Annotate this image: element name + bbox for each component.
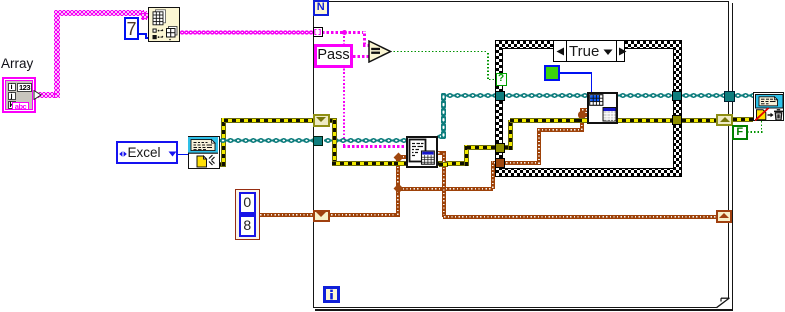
wire: New Report error out up to shift register (olive) [218,162,226,167]
wire: 7 to index array (blue) [139,33,146,35]
node junction A (magenta dot) [342,30,347,35]
wire: Pass out to equals lower input (magenta) [353,55,369,58]
wire: junction to equals top input [344,31,365,34]
wire: cluster constant to brown shift register [259,213,313,217]
VI Excel Get Worksheet [406,136,438,168]
wire: bottom rail to right brown shift register [443,215,716,219]
boolean constant F [732,125,748,140]
VI New Report [188,136,220,169]
case selector label True [553,40,625,62]
cluster constant 0,8 [235,189,260,241]
tunnel left (report refnum, teal) [313,136,323,146]
wire: brown riser at x397 [396,156,400,216]
wire: shift register to riser (brown) [330,213,400,217]
wire crossing patches (upper wire redraw) [219,138,230,143]
function equals? [368,40,392,63]
wire: junction down to worksheet name (magenta dotted vertical) [343,34,345,146]
VI Excel Set Cell Color [587,92,619,124]
case structure interior [502,48,674,170]
tunnel right (report refnum, teal) [724,91,735,102]
node junction B (brown diamond) [393,152,403,162]
wire: array control to index array (magenta rope) [38,92,58,99]
case structure border [495,40,683,177]
wire: case tunnel to Set Cell (brown) [505,161,540,165]
wire: tunnel to junction (magenta) [322,31,344,34]
wire: error through case (olive) [505,145,511,150]
for loop shadow right [732,3,734,311]
function Index Array [148,7,180,42]
wire: case error to right shift register (olive) [682,118,716,123]
case tunnel right olive [672,115,683,126]
control Array output arrow [33,90,42,100]
case selector terminal ? [496,73,507,86]
VI Dispose Report [753,92,784,121]
node junction C (brown diamond) [393,184,403,194]
numeric constant 7 [124,17,139,40]
shift register right (position, brown) [716,210,732,223]
wire: left shift register error to Get Worksheet (olive) [329,118,337,123]
case tunnel left teal [495,91,506,101]
wire: case to loop right tunnel (teal) [682,93,724,98]
case tunnel left olive [495,143,506,153]
wire: teal through case to Set Cell [505,93,672,98]
node junction D (brown dot) [578,111,586,119]
case tunnel right teal [672,91,683,101]
wire: error to Dispose (olive) [733,117,753,122]
loop count terminal N [313,0,330,16]
enum constant Excel [116,141,178,164]
control Array (3D string array) [2,77,36,113]
wire: F constant to Dispose node (green dotted) [747,131,763,133]
wire: index array out to loop tunnel (magenta 1D rope) [180,30,314,35]
wire: teal tunnel to Get Worksheet [324,138,406,143]
for loop shadow bottom [315,309,733,311]
wire: loop tunnel to Dispose (teal) [734,93,754,98]
wire: equals out to case selector terminal (green dotted) [390,51,488,53]
case tunnel left brown [495,158,506,168]
wire: New Report out to loop teal tunnel (report refnum) [219,138,313,143]
wire: color box to Set Cell node (blue) [559,72,592,74]
color box constant (green) [544,65,560,81]
wire: brown rail to case tunnel [398,187,493,191]
wire: Excel enum to New Report (blue) [178,154,189,156]
wire: string to Get Worksheet node (magenta) [343,145,406,148]
iteration terminal i [323,286,340,303]
wire: Get Worksheet out up to case (teal) [437,134,446,139]
shift register left (position, brown) [313,210,330,222]
wire: Get Worksheet position out down to bottom rail (brown) [437,151,446,155]
string constant Pass [314,44,353,68]
for loop N [313,1,730,309]
shift register right (error, olive) [716,114,733,126]
shift register left (error, olive) [313,114,330,127]
loop corner resize notch [715,297,731,309]
wire: into Get Worksheet start input (brown) [398,155,406,159]
auto-index tunnel [] [313,27,323,37]
label Array [1,56,45,71]
